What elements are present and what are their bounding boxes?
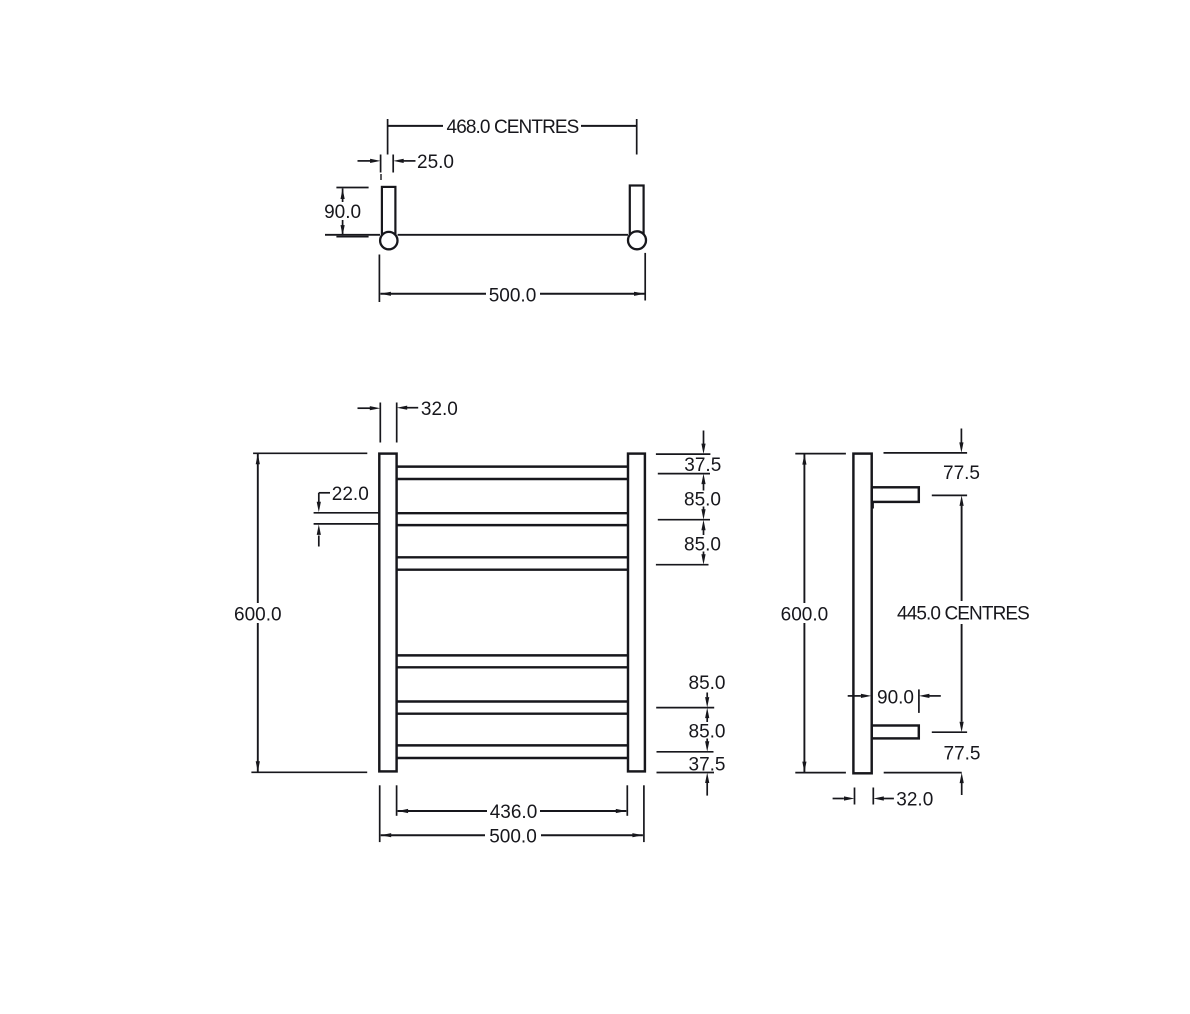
svg-text:436.0: 436.0 <box>490 802 538 823</box>
svg-text:500.0: 500.0 <box>489 827 537 848</box>
svg-text:85.0: 85.0 <box>689 673 726 694</box>
svg-text:600.0: 600.0 <box>234 604 282 625</box>
svg-text:500.0: 500.0 <box>489 286 537 307</box>
svg-text:32.0: 32.0 <box>421 399 458 420</box>
svg-text:22.0: 22.0 <box>332 484 369 505</box>
svg-text:37.5: 37.5 <box>684 455 721 476</box>
svg-text:85.0: 85.0 <box>684 534 721 555</box>
svg-text:445.0 CENTRES: 445.0 CENTRES <box>897 604 1029 625</box>
svg-text:85.0: 85.0 <box>684 489 721 510</box>
svg-text:468.0 CENTRES: 468.0 CENTRES <box>447 117 579 138</box>
svg-text:32.0: 32.0 <box>896 789 933 810</box>
svg-text:90.0: 90.0 <box>877 687 914 708</box>
svg-text:77.5: 77.5 <box>943 463 980 484</box>
svg-text:77.5: 77.5 <box>944 743 981 764</box>
svg-text:25.0: 25.0 <box>417 152 454 173</box>
svg-text:600.0: 600.0 <box>781 604 829 625</box>
svg-text:90.0: 90.0 <box>324 202 361 223</box>
